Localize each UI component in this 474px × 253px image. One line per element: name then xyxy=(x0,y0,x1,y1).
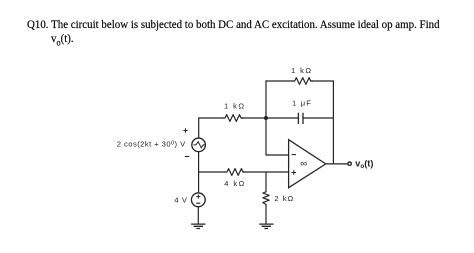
svg-text:2 kΩ: 2 kΩ xyxy=(274,194,294,203)
svg-text:4 V: 4 V xyxy=(174,196,188,205)
svg-text:∞: ∞ xyxy=(300,159,307,170)
svg-text:1 kΩ: 1 kΩ xyxy=(224,102,245,111)
svg-text:1 μF: 1 μF xyxy=(292,98,312,107)
svg-text:2 cos(2kt + 300) V: 2 cos(2kt + 300) V xyxy=(117,140,186,149)
svg-text:1 kΩ: 1 kΩ xyxy=(291,66,312,75)
svg-text:vo(t): vo(t) xyxy=(355,159,373,171)
svg-text:4 kΩ: 4 kΩ xyxy=(224,179,245,188)
